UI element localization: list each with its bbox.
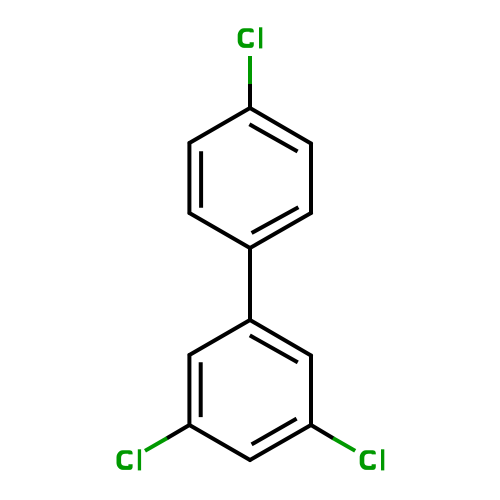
bond C11-C12 inner double line <box>199 362 203 417</box>
bond C4-C7 inter-ring single bond <box>248 248 252 320</box>
bond C12-C7 bottom ring edge upper-left to top <box>189 320 250 355</box>
bond C5-C6 inner double line <box>199 151 203 208</box>
bond C1-C2 top ring edge top to upper-right <box>250 108 311 144</box>
bond C8-C9 bottom ring right vertical edge <box>309 356 313 426</box>
bond C11-Cl2 green half <box>145 438 167 451</box>
bond C9-C10 bottom ring edge lower-right to bottom <box>250 425 311 460</box>
bond C9-Cl3 black half <box>311 425 333 438</box>
bond C6-C1 top ring edge upper-left to top <box>189 108 250 143</box>
bond C7-C8 bottom ring edge top to upper-right <box>250 320 311 356</box>
atom label Cl1 top <box>238 27 263 48</box>
bond C1-Cl1 green half <box>248 56 252 84</box>
bond C3-C4 inner double line <box>252 207 299 233</box>
bond C2-C3 top ring right vertical edge <box>309 144 313 214</box>
bond C4-C5 top ring edge bottom to lower-left <box>189 213 250 248</box>
atom label Cl2 bottom-left <box>116 449 141 470</box>
bond C5-C6 top ring left vertical edge <box>187 143 191 213</box>
bond C10-C11 bottom ring edge bottom to lower-left <box>189 425 250 460</box>
bond C1-Cl1 black half <box>248 84 252 108</box>
bond C7-C8 inner double line <box>250 335 298 362</box>
bond C11-Cl2 black half <box>167 425 189 438</box>
atom label Cl3 bottom-right <box>360 449 385 470</box>
bond C9-C10 inner double line <box>252 419 297 445</box>
bond C1-C2 inner double line <box>249 124 297 151</box>
bond C9-Cl3 green half <box>333 438 355 451</box>
bond C11-C12 bottom ring left vertical edge <box>187 355 191 425</box>
bond C3-C4 top ring edge lower-right to bottom <box>250 213 311 248</box>
